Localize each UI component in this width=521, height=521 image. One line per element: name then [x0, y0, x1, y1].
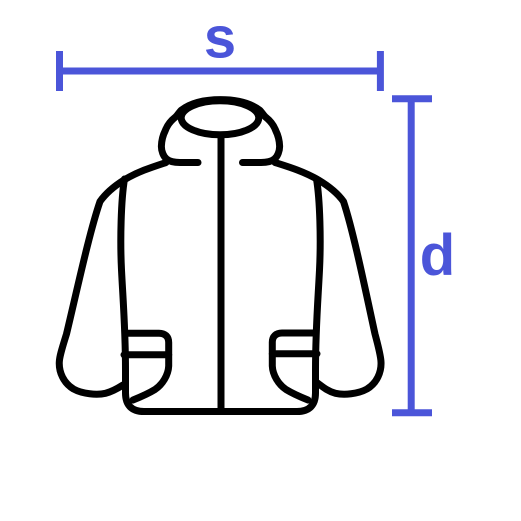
- dimension line d: vertical rule: [392, 99, 432, 413]
- left pocket flap line: [124, 351, 169, 358]
- left pocket: [125, 333, 169, 400]
- dimension line s: horizontal rule: [60, 51, 381, 91]
- dimension line s: left tick: [56, 51, 63, 91]
- body outline: [121, 179, 320, 412]
- hood opening ellipse: [181, 101, 259, 135]
- right pocket flap line: [272, 350, 317, 357]
- zipper line: [218, 136, 225, 410]
- right pocket: [272, 333, 316, 400]
- dimension line s: right tick: [377, 51, 384, 91]
- dimension line d: bottom tick: [392, 409, 432, 416]
- hood outer outline: [161, 100, 279, 163]
- jacket icon: [59, 100, 381, 412]
- right shoulder + sleeve outer + cuff: [275, 163, 381, 395]
- dimension line d: top tick: [392, 95, 432, 102]
- left shoulder + sleeve outer + cuff: [59, 163, 166, 395]
- svg-text:d: d: [420, 223, 455, 288]
- svg-text:s: s: [204, 6, 236, 71]
